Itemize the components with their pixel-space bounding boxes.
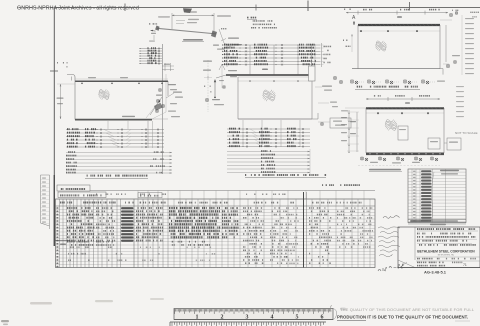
svg-text:THE QUALITY OF THIS DOCUMENT A: THE QUALITY OF THIS DOCUMENT ARE NOT SUI… xyxy=(340,307,475,312)
fastener row below panel 3 xyxy=(350,80,445,84)
handwritten date note xyxy=(383,216,400,219)
panel 3 left edge xyxy=(357,25,359,69)
bill of materials header strip 2 xyxy=(58,192,106,198)
left border tick xyxy=(50,70,58,72)
connectors from panel 1 to rows xyxy=(108,121,153,148)
panel 4 rivet row xyxy=(366,112,444,114)
bottom left corner mark xyxy=(1,320,9,325)
rivet schedule rows upper-left xyxy=(139,47,162,64)
section A-A side callouts xyxy=(203,60,237,112)
panel 4 right splice plates xyxy=(428,138,461,150)
table lower sparse rows xyxy=(55,240,216,261)
panel 1 material blob xyxy=(97,87,111,102)
top border tick 2 xyxy=(307,1,309,12)
left margin stub marks xyxy=(149,33,156,42)
panel view 2 top chord xyxy=(226,75,311,77)
svg-text:71: 71 xyxy=(463,263,467,267)
scanned ruler centimetres xyxy=(170,322,326,326)
table data middle columns xyxy=(243,207,373,264)
panel 3 top chord xyxy=(358,24,440,26)
bill of materials header strip 1 xyxy=(57,185,90,191)
panel 2 left edge xyxy=(237,77,239,119)
revision table date squiggles xyxy=(413,170,432,222)
title block description lines xyxy=(417,233,477,246)
svg-text:PRODUCTION IT IS DUE TO THE QU: PRODUCTION IT IS DUE TO THE QUALITY OF T… xyxy=(337,315,468,320)
panel 2 material blob xyxy=(261,87,277,103)
note A text block xyxy=(247,17,277,29)
panel 4 top chord xyxy=(366,107,444,109)
caption side plate detail xyxy=(355,86,420,90)
panel 2 left corner detail xyxy=(203,70,226,99)
panel 3 right top fastener xyxy=(450,10,480,18)
panel 3 label 11 xyxy=(397,16,402,18)
stamp line faint xyxy=(330,306,474,312)
top border tick small xyxy=(255,5,257,11)
table sub-header box xyxy=(138,193,162,198)
panel 1 bottom chord xyxy=(75,116,168,120)
panel 1 left dimension xyxy=(57,84,76,119)
caption lower panels left xyxy=(85,175,148,179)
panel 3 right corner hardware xyxy=(443,55,460,68)
panel 3 bottom edge xyxy=(352,69,443,75)
faint pencil smudges bottom left xyxy=(30,298,164,305)
scanned ruler inches xyxy=(174,308,346,321)
fastener rows below panel 4 xyxy=(358,157,440,166)
revision table header labels xyxy=(431,170,459,220)
schedule column connectors xyxy=(227,44,315,75)
title block lower cells xyxy=(398,257,480,268)
sheet top border line xyxy=(55,7,480,9)
panel 2 right edge xyxy=(311,81,313,119)
rivet schedule lower stub xyxy=(162,63,174,71)
panel 4 bottom chord xyxy=(366,153,444,154)
panel 2 right callouts xyxy=(315,77,343,108)
panel view 1 top flange xyxy=(67,75,168,82)
sheet left border line xyxy=(53,8,55,246)
panel 1 top dimension marks xyxy=(75,77,168,79)
title block owner line xyxy=(417,228,478,231)
panel 4 material blob xyxy=(383,117,398,133)
revision table grid xyxy=(408,169,466,225)
section A-A vertical member xyxy=(146,44,177,174)
detail leader notes right xyxy=(213,38,242,50)
right margin dimension stack mid xyxy=(456,86,464,117)
panel 2 right stiffener xyxy=(309,60,316,81)
bill of materials table grid xyxy=(56,192,376,268)
section B-B detail drawing xyxy=(149,11,231,43)
long rivet lines below panel 1 xyxy=(66,151,172,174)
panel 1 rivet row xyxy=(81,83,163,85)
sheet number slant xyxy=(399,262,407,268)
panel 2 bottom right detail xyxy=(318,118,351,128)
rivet rows below panel 2 xyxy=(227,128,310,148)
panel 3 left margin dims xyxy=(343,34,353,52)
rivet schedule rows upper-middle xyxy=(222,44,320,66)
panel 1 right corner details xyxy=(152,81,183,119)
panel 4 left outer labels xyxy=(341,108,366,111)
panel 4 label 11 xyxy=(405,102,410,104)
panel 4 left dimension columns xyxy=(341,110,359,153)
stamp line bold xyxy=(337,315,470,321)
table header band top xyxy=(90,191,375,200)
svg-text:NOT TO SCALE: NOT TO SCALE xyxy=(455,131,478,135)
svg-text:BETHLEHEM STEEL CORPORATION: BETHLEHEM STEEL CORPORATION xyxy=(417,250,475,254)
panel 2 bottom edge xyxy=(238,113,318,119)
panel 2 rivet row xyxy=(238,80,311,82)
panel 4 left edge xyxy=(365,108,367,153)
top border tick 3 xyxy=(409,2,411,11)
panel 3 right edge xyxy=(440,20,452,69)
right margin dimension stack upper xyxy=(462,15,474,75)
table data dense fraction section xyxy=(169,207,239,239)
archive watermark text xyxy=(17,6,139,12)
view arrow A xyxy=(352,15,356,25)
left border lower emphasis xyxy=(53,175,55,246)
svg-text:BETHLEHEM, PA.: BETHLEHEM, PA. xyxy=(438,254,455,257)
connectors from panel 2 to rows xyxy=(243,120,300,147)
left border annotation cluster xyxy=(57,62,68,68)
panel 2 label 36 xyxy=(262,69,268,71)
panel 3 rivet row xyxy=(358,30,440,32)
long rivet lines below panel 2 xyxy=(227,149,310,174)
bethlehem steel corporation name xyxy=(417,250,475,257)
revision table footer band xyxy=(408,219,466,225)
table right header note xyxy=(322,184,360,186)
panel view 3 top dimension line xyxy=(344,9,448,15)
section B-B caption xyxy=(182,39,204,42)
caption frame detail xyxy=(369,169,402,172)
schedule right dimension stack xyxy=(320,43,332,67)
table data dense part columns xyxy=(67,207,163,242)
top border tick 1 xyxy=(124,4,126,12)
rivet rows below panel 1 xyxy=(66,128,164,148)
solid section mark xyxy=(183,8,192,13)
caption lower panels middle xyxy=(245,174,326,178)
table left index ticks xyxy=(56,207,58,267)
panel 4 right edge xyxy=(443,108,445,153)
revision index strip xyxy=(41,175,50,229)
handwritten file number xyxy=(378,265,403,271)
panel 1 left edge xyxy=(74,81,76,120)
svg-text:AG-3.48-5.1: AG-3.48-5.1 xyxy=(424,269,447,274)
handwritten margin notes xyxy=(378,227,400,257)
svg-text:GNRHS-NPRHA Joint Archives - a: GNRHS-NPRHA Joint Archives - all rights … xyxy=(17,6,139,12)
table header smudges xyxy=(60,202,362,204)
panel view 4 top dimension line xyxy=(366,95,440,101)
panel 4 interior right box xyxy=(398,126,408,140)
panel 3 material blob xyxy=(374,39,388,54)
title block frame xyxy=(398,227,480,268)
